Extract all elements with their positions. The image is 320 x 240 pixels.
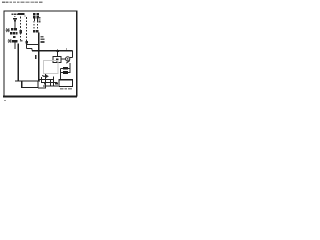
grey dashed enclosure <box>44 61 58 74</box>
terminal cluster vline c <box>50 80 52 86</box>
dashed D1 end mark <box>20 40 22 42</box>
cluster mark 3 <box>44 83 46 84</box>
motor center dot <box>67 58 68 59</box>
footer mark <box>4 100 6 101</box>
antenna T-bar <box>13 18 17 20</box>
label T1 text <box>12 13 18 17</box>
lead to motor <box>61 58 66 60</box>
pin end terminals <box>33 30 35 33</box>
label right of K1 <box>38 17 40 22</box>
wire right vertical <box>72 51 74 58</box>
fuse body 1 <box>63 67 68 70</box>
tick above bus <box>66 48 67 49</box>
D1 tap blob <box>20 30 22 33</box>
zigzag under motor <box>66 61 70 64</box>
motor circle M <box>66 57 70 61</box>
header url text <box>2 2 42 4</box>
cluster mark 1 <box>55 83 58 85</box>
terminal cluster hline 1 <box>40 79 54 81</box>
relay cluster row2 <box>10 32 12 35</box>
K1 pins <box>33 19 35 22</box>
bottom line 2 <box>38 87 46 89</box>
disconnect arrow stub <box>35 55 37 59</box>
top bar <box>18 13 24 15</box>
schematic frame <box>4 11 77 96</box>
bottom bus wire <box>15 80 40 82</box>
relay cluster row1 <box>11 28 13 31</box>
terminal cluster vline d <box>53 77 55 86</box>
step wire vertical 2 <box>31 48 33 50</box>
step wire vertical <box>26 44 28 49</box>
fuse lead 2 <box>60 72 70 74</box>
antenna arrow blob <box>14 20 16 22</box>
K1 dashed pin wires <box>33 21 35 30</box>
star mark 1 <box>6 28 10 32</box>
dashed wire D2 <box>26 17 28 41</box>
connector block K1 squares <box>33 13 39 19</box>
label block mid <box>40 36 44 43</box>
frame bottom thick <box>3 95 77 97</box>
fuse lead 1 <box>60 67 70 69</box>
terminal cluster hline 2 <box>42 82 58 84</box>
B2 caption text <box>60 88 72 89</box>
dashed wire D1 <box>20 17 22 40</box>
star mark 2 <box>8 39 12 43</box>
terminal cluster vline b <box>45 74 47 87</box>
actuator arrow shaft <box>43 75 47 77</box>
wire left of fuses <box>60 68 62 79</box>
terminal cluster vline a <box>41 77 43 83</box>
branch stub down <box>57 51 59 57</box>
actuator arrow head <box>46 75 49 79</box>
wire A horizontal <box>27 43 39 45</box>
long wire W2 <box>38 33 40 81</box>
box B2 <box>59 80 73 87</box>
dash under motor <box>66 60 68 61</box>
D2 terminal blob <box>25 41 27 44</box>
dot right of bar <box>24 15 25 16</box>
terminal cluster hline 3 <box>43 85 58 87</box>
box B1 <box>22 81 38 88</box>
actuator arrow tail tick <box>42 75 43 76</box>
pressure switch box <box>53 56 61 62</box>
junction node <box>56 50 59 53</box>
antenna stem wire <box>14 19 16 28</box>
wire to motor right <box>70 57 73 59</box>
relay cluster bottom bar <box>12 40 18 42</box>
stub wire left <box>14 42 16 49</box>
fuse body 2 <box>63 71 68 74</box>
vertical wire to fuses <box>69 63 71 73</box>
switch inner contact <box>56 59 59 62</box>
long wire W1 <box>17 43 19 81</box>
relay cluster row3 <box>13 36 16 38</box>
step wire horizontal <box>27 47 32 49</box>
bus wire B <box>32 50 73 52</box>
